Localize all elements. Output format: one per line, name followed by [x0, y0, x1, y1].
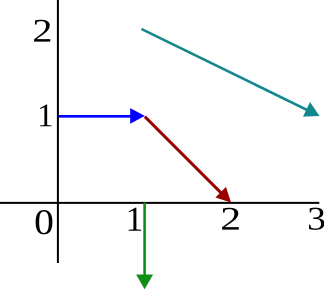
x tick label 3 — [309, 208, 324, 230]
teal vector shaft — [142, 29, 308, 110]
green vector arrowhead — [136, 275, 153, 290]
origin label 0 — [36, 210, 53, 234]
y tick label 2 — [34, 20, 50, 42]
x tick label 1 — [129, 208, 141, 231]
blue vector arrowhead — [130, 108, 145, 124]
x-axis — [0, 202, 319, 204]
dark red vector arrowhead — [215, 187, 231, 203]
teal vector arrowhead — [303, 102, 320, 117]
x tick label 2 — [222, 208, 239, 230]
y-axis — [57, 0, 59, 263]
dark red vector shaft — [145, 117, 222, 194]
green vector shaft — [143, 203, 146, 276]
y tick label 1 — [40, 105, 52, 127]
blue vector shaft — [59, 115, 133, 118]
